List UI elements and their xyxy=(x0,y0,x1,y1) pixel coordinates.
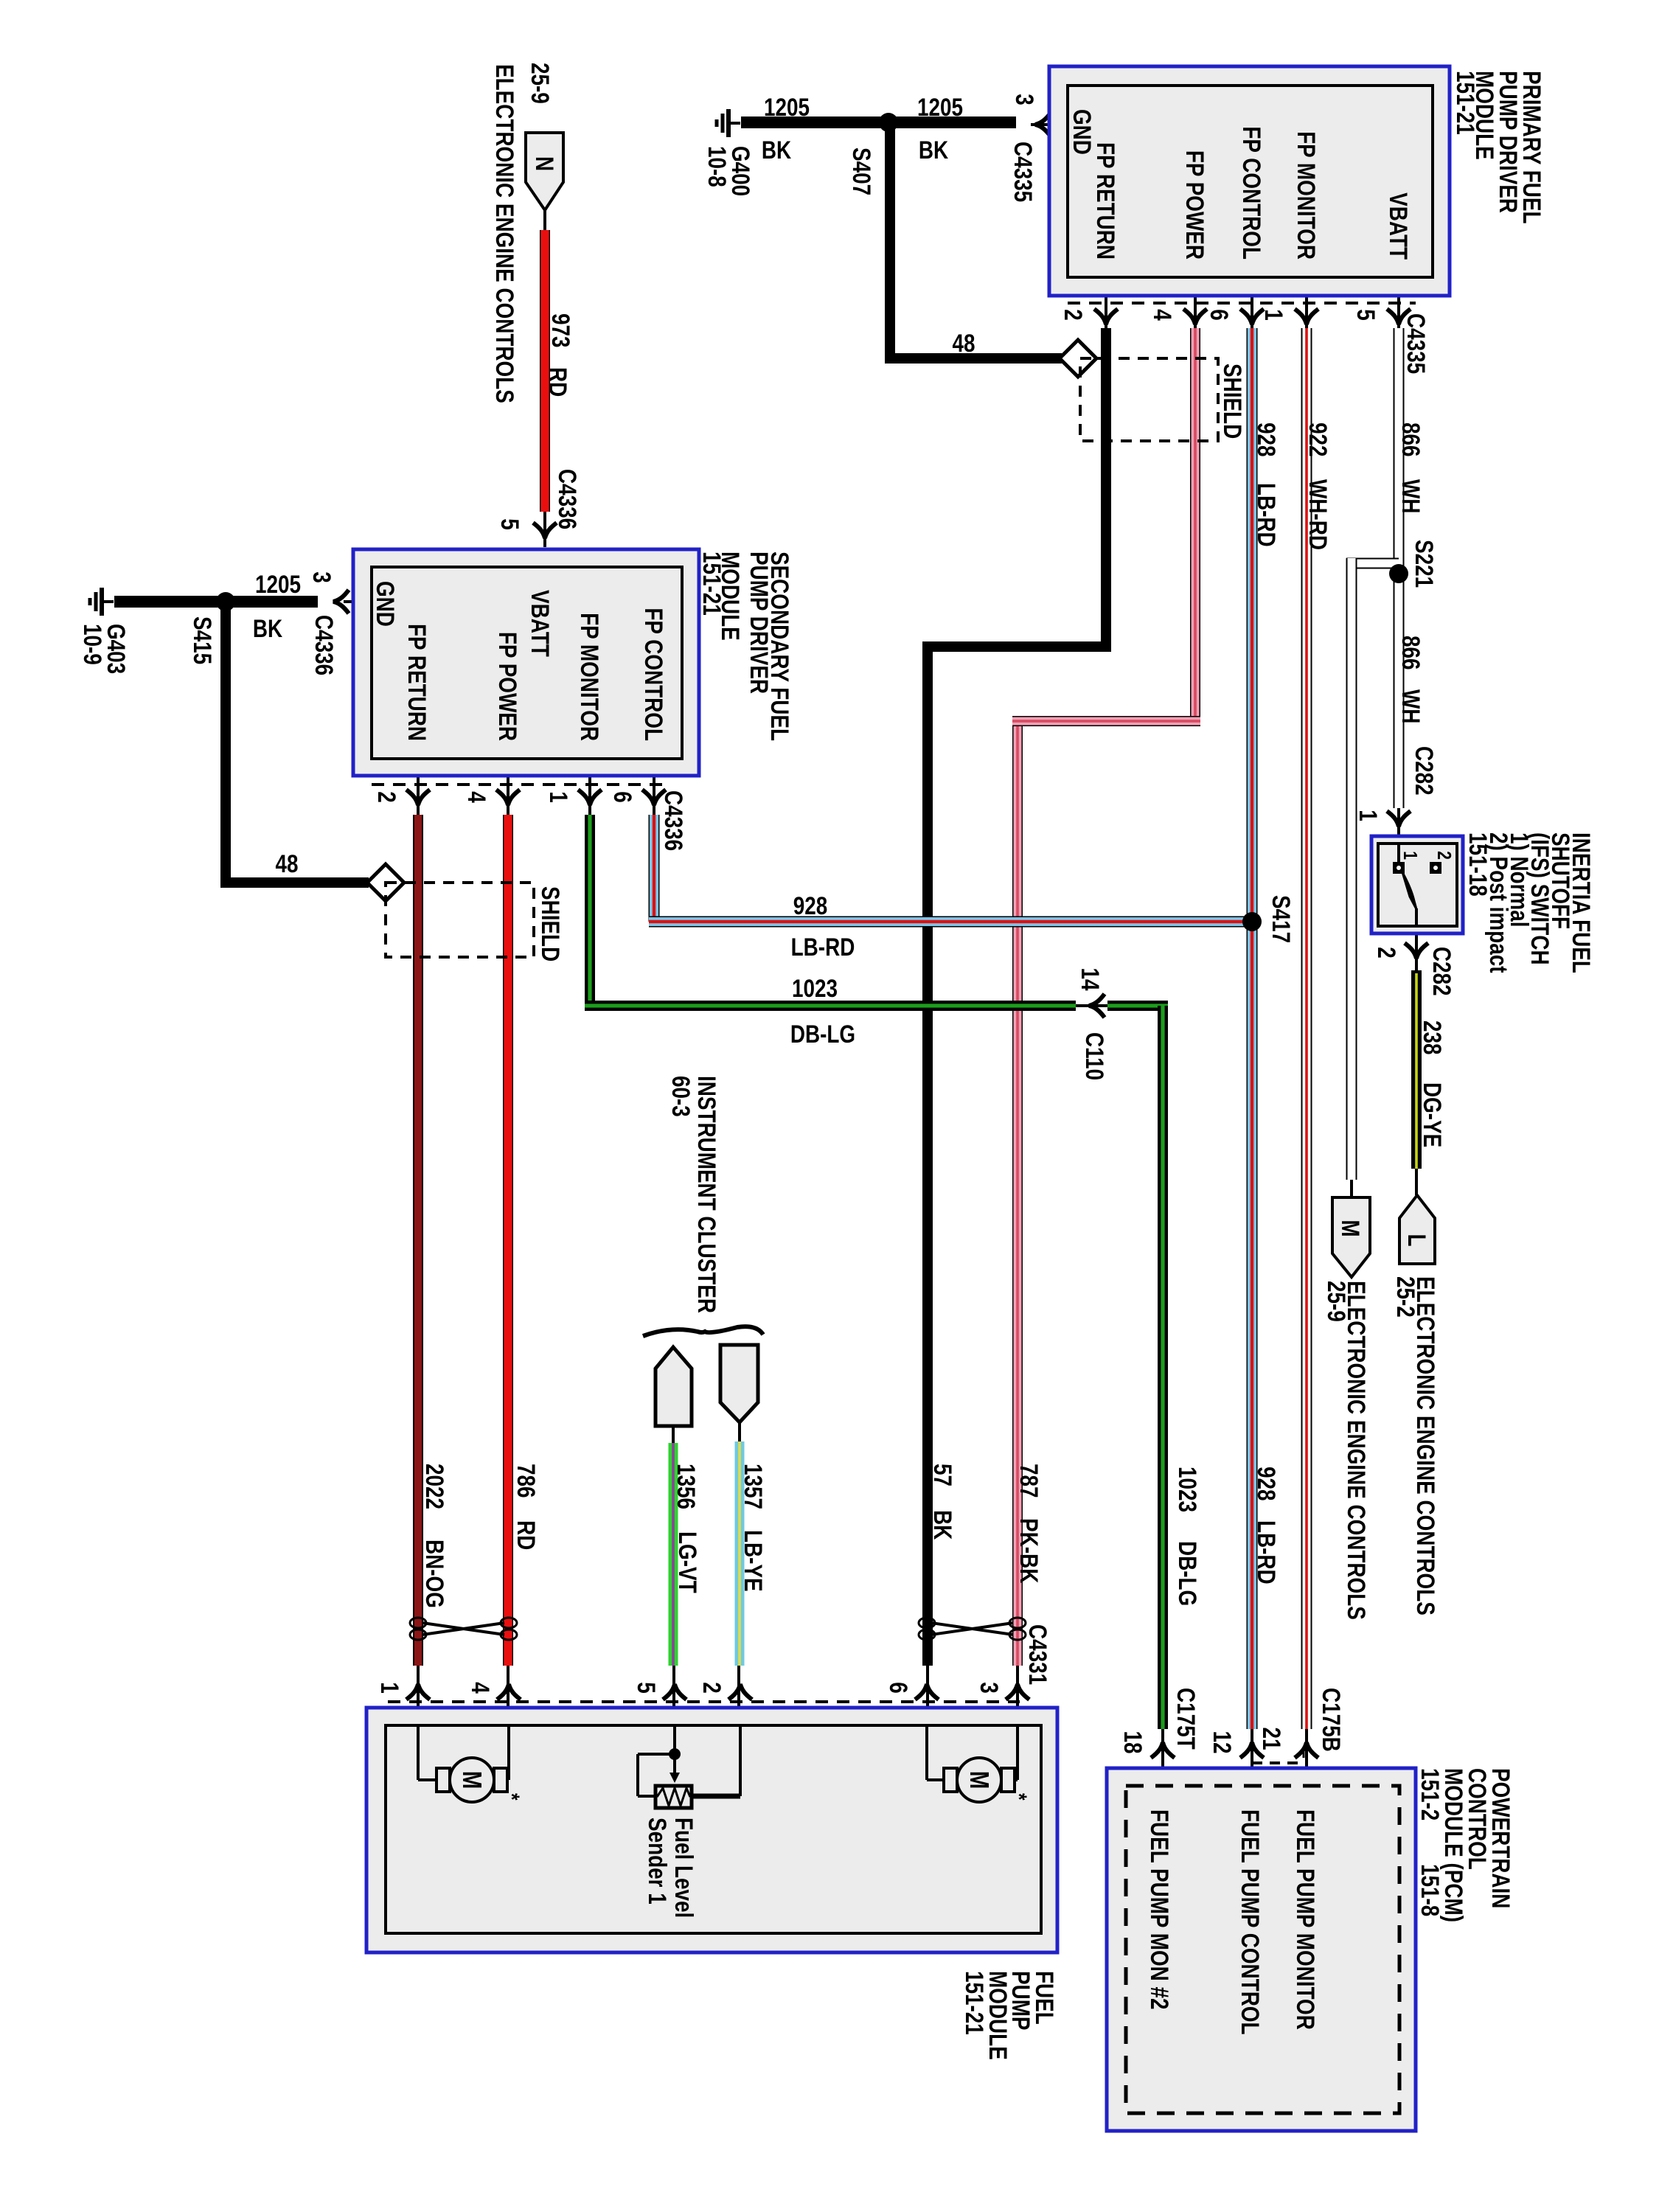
svg-text:48: 48 xyxy=(275,849,298,877)
svg-text:INSTRUMENT CLUSTER: INSTRUMENT CLUSTER xyxy=(692,1076,720,1313)
svg-text:ELECTRONIC ENGINE CONTROLS: ELECTRONIC ENGINE CONTROLS xyxy=(1342,1281,1370,1620)
svg-text:2: 2 xyxy=(1433,851,1455,860)
svg-text:4: 4 xyxy=(1148,309,1176,321)
svg-text:1: 1 xyxy=(375,1682,403,1694)
svg-text:866: 866 xyxy=(1397,422,1425,457)
svg-text:1205: 1205 xyxy=(255,570,301,598)
svg-text:14: 14 xyxy=(1076,967,1104,991)
svg-text:1205: 1205 xyxy=(764,93,810,121)
svg-text:BK: BK xyxy=(928,1510,956,1540)
svg-text:C282: C282 xyxy=(1427,947,1455,996)
svg-text:LG-VT: LG-VT xyxy=(673,1531,701,1593)
svg-text:48: 48 xyxy=(952,329,975,357)
svg-text:FUEL PUMP MON #2: FUEL PUMP MON #2 xyxy=(1145,1809,1173,2010)
svg-text:1: 1 xyxy=(1354,810,1382,821)
svg-text:25-2: 25-2 xyxy=(1391,1276,1419,1318)
svg-text:5: 5 xyxy=(1352,309,1380,321)
svg-text:BK: BK xyxy=(762,136,792,164)
svg-text:6: 6 xyxy=(884,1682,912,1694)
svg-text:BN-OG: BN-OG xyxy=(420,1540,448,1608)
svg-text:S415: S415 xyxy=(188,616,216,664)
svg-text:1205: 1205 xyxy=(917,93,963,121)
svg-text:1023: 1023 xyxy=(1173,1467,1201,1512)
svg-text:ELECTRONIC ENGINE CONTROLS: ELECTRONIC ENGINE CONTROLS xyxy=(1411,1276,1439,1615)
svg-text:S417: S417 xyxy=(1267,895,1295,943)
svg-text:1: 1 xyxy=(1259,309,1287,321)
svg-text:2: 2 xyxy=(698,1682,726,1694)
svg-text:C282: C282 xyxy=(1410,746,1438,796)
svg-text:1356: 1356 xyxy=(672,1464,700,1509)
svg-text:10-8: 10-8 xyxy=(703,146,731,187)
svg-text:3: 3 xyxy=(307,571,335,583)
svg-text:WH: WH xyxy=(1397,479,1425,513)
svg-text:ELECTRONIC ENGINE CONTROLS: ELECTRONIC ENGINE CONTROLS xyxy=(490,64,518,403)
svg-text:238: 238 xyxy=(1418,1020,1446,1055)
svg-text:2022: 2022 xyxy=(420,1464,448,1509)
svg-text:10-9: 10-9 xyxy=(78,624,106,665)
svg-text:LB-RD: LB-RD xyxy=(1252,1520,1280,1585)
svg-text:1: 1 xyxy=(1399,851,1421,860)
svg-text:2: 2 xyxy=(1059,309,1087,321)
svg-text:FUEL PUMP CONTROL: FUEL PUMP CONTROL xyxy=(1236,1809,1264,2035)
svg-text:FP RETURN: FP RETURN xyxy=(403,624,431,741)
svg-text:25-9: 25-9 xyxy=(526,63,554,104)
svg-text:BK: BK xyxy=(253,614,283,642)
svg-text:LB-RD: LB-RD xyxy=(791,933,855,961)
svg-text:866: 866 xyxy=(1397,636,1425,670)
svg-text:928: 928 xyxy=(793,891,828,919)
svg-text:M: M xyxy=(457,1771,487,1790)
svg-text:VBATT: VBATT xyxy=(1384,192,1412,260)
svg-text:FP MONITOR: FP MONITOR xyxy=(1292,131,1320,260)
svg-text:GND: GND xyxy=(371,581,399,627)
svg-text:3: 3 xyxy=(1010,94,1038,105)
svg-text:S407: S407 xyxy=(847,147,875,195)
svg-text:*: * xyxy=(1006,1793,1032,1801)
svg-text:60-3: 60-3 xyxy=(667,1076,695,1117)
svg-text:VBATT: VBATT xyxy=(526,590,554,657)
svg-text:FP MONITOR: FP MONITOR xyxy=(575,613,603,741)
svg-text:Fuel Level: Fuel Level xyxy=(669,1818,698,1918)
svg-text:973: 973 xyxy=(546,313,574,348)
svg-text:4: 4 xyxy=(466,1682,494,1694)
svg-text:786: 786 xyxy=(512,1464,540,1498)
svg-text:12: 12 xyxy=(1208,1731,1236,1753)
svg-text:RD: RD xyxy=(512,1520,540,1550)
svg-text:21: 21 xyxy=(1257,1727,1285,1750)
svg-text:5: 5 xyxy=(632,1682,660,1694)
svg-text:DB-LG: DB-LG xyxy=(1173,1541,1201,1606)
svg-text:151-21: 151-21 xyxy=(698,552,726,616)
svg-text:787: 787 xyxy=(1015,1464,1043,1498)
svg-text:WH-RD: WH-RD xyxy=(1304,479,1332,550)
svg-text:PUMP DRIVER: PUMP DRIVER xyxy=(745,552,773,694)
svg-text:M: M xyxy=(964,1771,994,1790)
svg-text:1: 1 xyxy=(544,791,572,803)
svg-text:C110: C110 xyxy=(1080,1032,1108,1080)
svg-text:M: M xyxy=(1336,1220,1364,1237)
svg-text:LB-RD: LB-RD xyxy=(1252,483,1280,547)
svg-text:151-2: 151-2 xyxy=(1416,1768,1444,1820)
svg-text:6: 6 xyxy=(608,791,636,803)
svg-text:RD: RD xyxy=(543,367,571,397)
svg-text:PK-BK: PK-BK xyxy=(1015,1518,1043,1584)
svg-text:*: * xyxy=(499,1793,524,1801)
svg-text:151-21: 151-21 xyxy=(960,1971,988,2035)
svg-text:BK: BK xyxy=(919,136,949,164)
svg-text:151-18: 151-18 xyxy=(1464,832,1492,897)
svg-text:18: 18 xyxy=(1119,1731,1147,1753)
svg-text:FP CONTROL: FP CONTROL xyxy=(639,608,667,741)
svg-text:151-21: 151-21 xyxy=(1451,71,1479,135)
svg-text:N: N xyxy=(530,156,558,171)
svg-text:C4335: C4335 xyxy=(1009,142,1037,202)
svg-text:FUEL PUMP MONITOR: FUEL PUMP MONITOR xyxy=(1291,1809,1319,2030)
svg-text:FP RETURN: FP RETURN xyxy=(1091,142,1119,260)
svg-text:DG-YE: DG-YE xyxy=(1418,1082,1446,1147)
svg-text:928: 928 xyxy=(1252,1467,1280,1501)
svg-text:25-9: 25-9 xyxy=(1322,1281,1350,1322)
svg-text:C175T: C175T xyxy=(1172,1688,1200,1750)
svg-text:WH: WH xyxy=(1397,689,1425,723)
svg-text:2: 2 xyxy=(1372,947,1400,959)
svg-text:928: 928 xyxy=(1252,422,1280,457)
svg-text:3: 3 xyxy=(975,1682,1003,1694)
svg-text:C4336: C4336 xyxy=(553,469,581,529)
svg-text:C175B: C175B xyxy=(1317,1688,1345,1752)
svg-text:FP POWER: FP POWER xyxy=(493,632,521,741)
svg-text:5: 5 xyxy=(495,518,524,530)
svg-text:LB-YE: LB-YE xyxy=(739,1530,767,1592)
svg-text:6: 6 xyxy=(1205,309,1233,321)
svg-text:C4336: C4336 xyxy=(310,615,338,675)
svg-text:922: 922 xyxy=(1304,422,1332,457)
svg-text:C4331: C4331 xyxy=(1023,1624,1051,1685)
svg-text:1023: 1023 xyxy=(792,974,838,1002)
svg-text:S221: S221 xyxy=(1410,540,1438,588)
svg-text:L: L xyxy=(1402,1234,1430,1246)
svg-text:SHIELD: SHIELD xyxy=(1218,364,1246,439)
svg-text:4: 4 xyxy=(462,791,490,803)
svg-text:FP POWER: FP POWER xyxy=(1180,150,1208,260)
svg-text:151-8: 151-8 xyxy=(1416,1864,1444,1916)
svg-text:57: 57 xyxy=(928,1464,956,1486)
svg-text:C4336: C4336 xyxy=(659,790,687,851)
svg-text:2: 2 xyxy=(372,791,400,803)
svg-text:1357: 1357 xyxy=(739,1464,767,1509)
svg-text:Sender 1: Sender 1 xyxy=(643,1818,671,1905)
svg-text:FP CONTROL: FP CONTROL xyxy=(1237,126,1265,260)
svg-text:C4335: C4335 xyxy=(1402,313,1430,374)
svg-text:SHIELD: SHIELD xyxy=(536,886,564,961)
svg-text:DB-LG: DB-LG xyxy=(790,1020,855,1048)
